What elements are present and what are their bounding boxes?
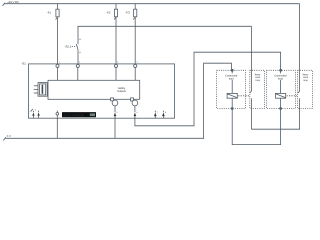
svg-text:loop: loop (303, 79, 308, 82)
terminal arrow T2 and load2 feed wire (134, 52, 281, 126)
label: connected load 1 (223, 73, 240, 80)
wire: monitoring chain top run (78, 26, 251, 44)
svg-text:+24 V DC: +24 V DC (7, 1, 19, 4)
svg-text:3: 3 (117, 61, 118, 64)
label: feedback loop 1 (253, 73, 262, 83)
fuse F3 (133, 4, 137, 65)
pin labels bottom terminals (35, 108, 166, 114)
wire: internal drops to module (58, 68, 136, 81)
outer device box S1 (29, 64, 175, 118)
module box (48, 80, 140, 99)
terminal arrow T4 (162, 111, 165, 119)
fuse F1 (56, 4, 60, 65)
svg-text:-S1: -S1 (21, 61, 26, 65)
terminal circle (F2 input) (114, 64, 117, 67)
label: connected load 2 (272, 73, 289, 80)
dashed box: feedback loop 1 (250, 70, 265, 108)
feedback chain: right vertical from +24V (251, 4, 299, 130)
terminal circle (F3 input) (134, 64, 137, 67)
dashed box: connected load 1 (217, 70, 246, 108)
EUCHNER logo (62, 112, 96, 117)
svg-text:Outputs: Outputs (117, 90, 127, 93)
svg-text:load: load (278, 78, 283, 81)
svg-text:4: 4 (137, 61, 138, 64)
plug circle output A (111, 98, 118, 106)
svg-text:-S2.1: -S2.1 (65, 45, 72, 49)
svg-text:-F1: -F1 (47, 10, 52, 14)
svg-text:back: back (255, 76, 261, 79)
svg-text:load: load (229, 78, 234, 81)
dashed box: feedback loop 2 (298, 70, 313, 108)
terminal arrow T3 (154, 111, 157, 119)
svg-text:9: 9 (35, 108, 36, 111)
svg-text:8: 8 (165, 111, 166, 114)
svg-text:14: 14 (79, 51, 81, 54)
svg-text:5: 5 (117, 111, 118, 114)
plug connector left (34, 83, 48, 97)
feedback chain: left vertical to S2 run (250, 26, 252, 129)
plug circle output B (131, 98, 138, 106)
svg-text:EUCHNER: EUCHNER (63, 113, 83, 118)
fuse F2 (114, 4, 117, 65)
svg-text:7: 7 (157, 111, 158, 114)
svg-text:1: 1 (59, 61, 60, 64)
svg-text:0 V: 0 V (7, 135, 11, 138)
terminal pair bottom-left (31, 109, 40, 118)
svg-text:-F2: -F2 (106, 10, 111, 14)
svg-text:loop: loop (256, 79, 261, 82)
terminal circle (S2 input) (76, 64, 79, 67)
svg-text:back: back (303, 76, 309, 79)
dashed box: connected load 2 (266, 70, 295, 108)
load 1 branch (227, 69, 249, 109)
+24V DC bus (3, 3, 300, 6)
svg-text:-F3: -F3 (125, 10, 130, 14)
svg-text:2: 2 (79, 61, 80, 64)
switch S2 (reset button) (72, 44, 78, 64)
pin labels top terminals (59, 61, 138, 64)
svg-text:Feed-: Feed- (303, 73, 309, 76)
load bottoms U wire (232, 109, 280, 145)
label: feedback loop 2 (301, 73, 310, 83)
module 0V drop (56, 111, 59, 139)
svg-text:6: 6 (137, 111, 138, 114)
terminal arrow T1 and 0V wire (114, 106, 117, 138)
svg-text:13: 13 (79, 38, 81, 41)
0V bus (3, 63, 231, 140)
svg-text:Feed-: Feed- (255, 73, 261, 76)
load 2 branch (276, 69, 298, 109)
terminal circle (F1 input) (56, 64, 59, 67)
